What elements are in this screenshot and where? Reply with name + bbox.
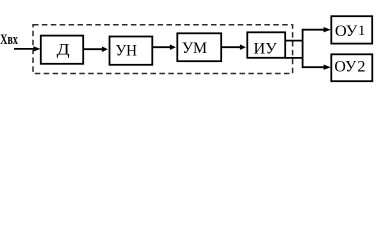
block ОУ1 (output device 1) box <box>331 16 372 43</box>
block УМ (power amplifier) box <box>177 33 221 61</box>
svg-text:Д: Д <box>57 41 70 58</box>
block Д (detector) box <box>41 36 83 64</box>
wire ИУ upper output stub <box>285 40 303 42</box>
block ИУ (matching amplifier) box <box>247 32 285 58</box>
dashed enclosure (amplifier unit boundary) <box>33 25 293 74</box>
wire УН to УМ <box>152 44 176 50</box>
svg-text:ОУ: ОУ <box>334 59 356 76</box>
svg-text:УМ: УМ <box>182 40 207 57</box>
label ОУ2 <box>334 59 365 76</box>
wire branch to ОУ2 <box>303 65 331 70</box>
wire ИУ lower output stub <box>285 57 303 59</box>
wire Д to УН <box>83 46 108 52</box>
svg-text:Хвх: Хвх <box>0 32 18 48</box>
block ОУ2 (output device 2) box <box>331 54 372 81</box>
svg-text:УН: УН <box>115 43 137 60</box>
label ОУ1 <box>335 23 366 40</box>
wire branch vertical <box>302 29 304 68</box>
wire input arrow Xвх to Д <box>14 46 41 51</box>
block УН (voltage amplifier) box <box>110 37 153 65</box>
svg-text:1: 1 <box>358 23 366 39</box>
wire УМ to ИУ <box>221 44 246 50</box>
svg-text:ОУ: ОУ <box>335 23 358 40</box>
svg-text:ИУ: ИУ <box>254 41 278 58</box>
wire branch to ОУ1 <box>303 27 331 32</box>
svg-text:2: 2 <box>357 59 365 76</box>
